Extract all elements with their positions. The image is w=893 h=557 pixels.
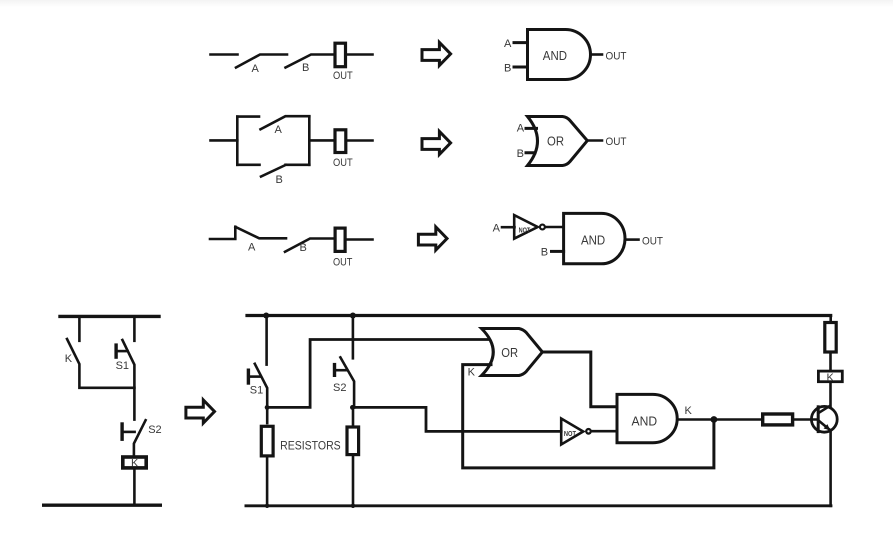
svg-text:B: B bbox=[541, 247, 548, 259]
svg-text:S2: S2 bbox=[148, 424, 161, 436]
svg-text:OUT: OUT bbox=[333, 70, 353, 82]
svg-text:OUT: OUT bbox=[333, 256, 353, 268]
svg-text:B: B bbox=[302, 62, 309, 74]
svg-text:AND: AND bbox=[543, 49, 567, 63]
svg-text:OUT: OUT bbox=[606, 136, 627, 148]
svg-text:B: B bbox=[504, 63, 511, 75]
svg-text:OUT: OUT bbox=[642, 235, 663, 247]
svg-text:K: K bbox=[468, 367, 476, 379]
svg-text:K: K bbox=[685, 405, 693, 417]
svg-text:A: A bbox=[252, 63, 260, 75]
svg-text:NOT: NOT bbox=[519, 226, 531, 235]
svg-text:B: B bbox=[276, 174, 283, 186]
svg-text:OR: OR bbox=[501, 346, 518, 360]
svg-text:K: K bbox=[827, 372, 835, 384]
svg-text:A: A bbox=[504, 38, 512, 50]
svg-text:S2: S2 bbox=[333, 382, 346, 394]
svg-text:S1: S1 bbox=[116, 360, 129, 372]
svg-text:AND: AND bbox=[581, 234, 605, 248]
svg-text:K: K bbox=[65, 353, 73, 365]
svg-text:RESISTORS: RESISTORS bbox=[280, 438, 341, 452]
svg-text:A: A bbox=[493, 223, 501, 235]
svg-text:A: A bbox=[275, 124, 283, 136]
svg-text:NOT: NOT bbox=[564, 429, 576, 438]
svg-text:B: B bbox=[517, 148, 524, 160]
svg-text:K: K bbox=[131, 458, 139, 470]
svg-text:AND: AND bbox=[632, 414, 658, 428]
svg-text:S1: S1 bbox=[250, 385, 263, 397]
svg-text:A: A bbox=[517, 122, 525, 134]
svg-text:B: B bbox=[300, 242, 307, 254]
svg-text:A: A bbox=[248, 242, 256, 254]
svg-text:OUT: OUT bbox=[333, 157, 353, 169]
svg-text:OR: OR bbox=[547, 135, 564, 149]
svg-text:OUT: OUT bbox=[606, 51, 627, 63]
